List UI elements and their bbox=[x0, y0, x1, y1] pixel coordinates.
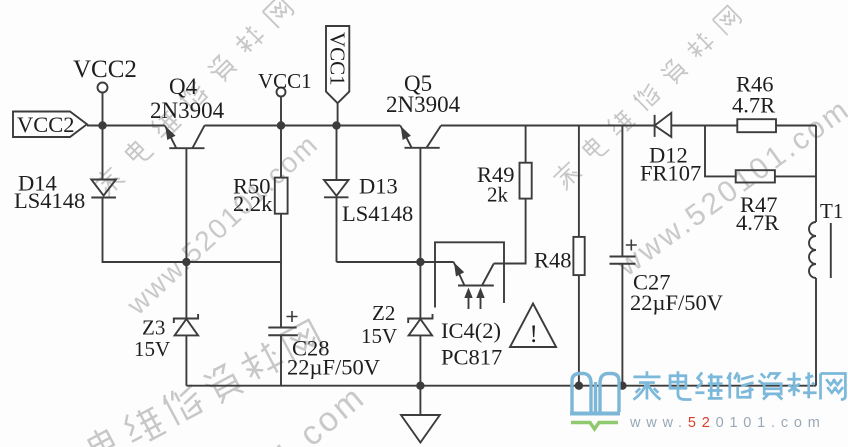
resistor R49 bbox=[520, 163, 532, 199]
svg-text:R48: R48 bbox=[534, 248, 572, 273]
wire: D12 anode to R46 bbox=[671, 125, 737, 127]
node VCC2 junction dot bbox=[98, 121, 106, 129]
wire: main top bus left segment (VCC2 flag to Q4 emitter) bbox=[87, 125, 165, 127]
svg-text:www.520101.com: www.520101.com bbox=[611, 92, 848, 283]
zener Z3 bbox=[185, 262, 187, 319]
wire: D14 to mid bus corner bbox=[103, 198, 187, 263]
transistor Q5 bbox=[400, 126, 441, 148]
diode D13 bbox=[336, 126, 338, 181]
VCC1 flag symbol (vertical) bbox=[326, 26, 349, 103]
svg-text:VCC2: VCC2 bbox=[17, 112, 75, 137]
svg-text:IC4(2): IC4(2) bbox=[441, 318, 501, 343]
node ground junction dot bbox=[416, 382, 424, 390]
ground bbox=[419, 386, 421, 415]
wire: Q4 base down to mid bus bbox=[185, 148, 187, 262]
svg-text:15V: 15V bbox=[361, 324, 397, 348]
svg-text:LS4148: LS4148 bbox=[14, 188, 85, 213]
site logo url bbox=[629, 415, 826, 431]
node D13 top junction dot bbox=[332, 121, 340, 129]
wire: mid bus segment B bbox=[337, 261, 454, 263]
wire: VCC2 node down to D14 bbox=[102, 126, 104, 180]
wire: phototransistor collector to R49 bbox=[494, 199, 526, 264]
svg-text:Z2: Z2 bbox=[372, 301, 395, 325]
svg-text:D13: D13 bbox=[359, 174, 398, 199]
wire: mid bus segment A bbox=[103, 261, 282, 263]
VCC2 flag symbol bbox=[13, 112, 87, 138]
resistor R50 bbox=[280, 126, 282, 178]
svg-text:4.7R: 4.7R bbox=[736, 210, 779, 235]
svg-text:4.7R: 4.7R bbox=[732, 93, 775, 118]
VCC2 terminal circle and stub bbox=[98, 83, 108, 93]
capacitor C27 bbox=[621, 126, 623, 256]
resistor R48 bbox=[578, 126, 580, 237]
schematic text labels bbox=[14, 32, 843, 380]
node C27 bottom junction dot bbox=[618, 382, 626, 390]
resistor R47 bbox=[736, 170, 775, 182]
zener Z2 bbox=[419, 262, 421, 319]
transistor Q4 bbox=[165, 126, 205, 149]
optocoupler phototransistor bbox=[454, 262, 494, 286]
inductor T1 primary winding bbox=[809, 222, 816, 278]
site logo green swoosh bbox=[571, 423, 618, 430]
svg-text:15V: 15V bbox=[134, 337, 170, 361]
wire: Q5 base down to mid bus bbox=[419, 148, 421, 262]
svg-text:LS4148: LS4148 bbox=[342, 201, 413, 226]
svg-text:22µF/50V: 22µF/50V bbox=[287, 355, 380, 380]
svg-text:2.2k: 2.2k bbox=[233, 191, 273, 216]
node mid-bus/Z3 junction dot bbox=[182, 258, 190, 266]
wire: branch down to R47 bbox=[705, 126, 736, 177]
warning triangle bbox=[510, 304, 556, 348]
svg-text:VCC1: VCC1 bbox=[326, 32, 350, 86]
svg-text:www.520101.com: www.520101.com bbox=[629, 415, 826, 431]
svg-text:T1: T1 bbox=[820, 199, 843, 223]
diode D12 bbox=[654, 115, 656, 137]
svg-text:Q4: Q4 bbox=[169, 74, 198, 99]
node R50 top junction dot bbox=[277, 121, 285, 129]
wire: main top bus Q4 collector to Q5 emitter bbox=[205, 125, 401, 127]
site logo book icon bbox=[570, 374, 620, 414]
resistor R46 bbox=[737, 119, 776, 132]
svg-text:Z3: Z3 bbox=[142, 316, 165, 340]
svg-text:2N3904: 2N3904 bbox=[386, 92, 461, 117]
wire: right rail bbox=[815, 126, 817, 223]
svg-text:2N3904: 2N3904 bbox=[150, 98, 225, 123]
wire: bottom return bus bbox=[186, 385, 816, 387]
svg-text:PC817: PC817 bbox=[441, 345, 502, 370]
optocoupler IC4(2) box bbox=[435, 242, 504, 307]
svg-text:VCC1: VCC1 bbox=[258, 69, 312, 93]
capacitor C28 bbox=[268, 327, 296, 329]
svg-text:22µF/50V: 22µF/50V bbox=[630, 290, 723, 315]
svg-text:VCC2: VCC2 bbox=[73, 56, 137, 83]
VCC1 terminal circle and stub bbox=[277, 88, 286, 97]
svg-text:!: ! bbox=[530, 321, 538, 348]
site logo chinese wordmark bbox=[633, 371, 845, 399]
node R48 bottom junction dot bbox=[575, 382, 583, 390]
node mid-bus/Z2 junction dot bbox=[416, 258, 424, 266]
svg-text:2k: 2k bbox=[487, 183, 509, 207]
svg-text:FR107: FR107 bbox=[640, 161, 701, 186]
wire: main top bus Q5 collector to D12 bbox=[441, 125, 655, 127]
diode D14 bbox=[91, 180, 116, 196]
